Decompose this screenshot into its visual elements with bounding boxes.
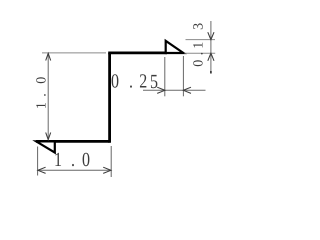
dimension line horizontal 1.0 bbox=[38, 169, 111, 171]
svg-text:.: . bbox=[192, 52, 207, 56]
arrow up-pointing below lower ext (0.13) bbox=[208, 53, 214, 61]
extension line left (for 0.25 dim) bbox=[164, 57, 166, 96]
extension line top (for vertical 1.0 dim) bbox=[42, 52, 106, 54]
dimension line vertical 0.13 bbox=[210, 21, 212, 73]
label 1.0 vertical (rotated) bbox=[34, 77, 49, 109]
wire vertical thick line of step profile bbox=[108, 53, 111, 143]
arrow down-pointing above upper ext (0.13) bbox=[208, 32, 214, 40]
arrow up (1.0 vertical top) bbox=[46, 53, 51, 60]
arrow right (1.0 horizontal) bbox=[103, 167, 111, 173]
svg-text:1: 1 bbox=[54, 149, 62, 171]
label 0.13 (rotated) bbox=[192, 23, 207, 67]
extension line right (for 0.25 dim) bbox=[182, 56, 184, 96]
extension line bottom-right (for horizontal 1.0 dim) bbox=[110, 146, 112, 177]
svg-text:.: . bbox=[71, 149, 75, 171]
extension line upper (for 0.13 dim) bbox=[186, 39, 216, 41]
svg-text:1: 1 bbox=[192, 42, 207, 49]
chamfer triangle bottom-left bbox=[36, 141, 55, 152]
extension line lower (for 0.13 dim) bbox=[185, 52, 216, 54]
arrow left (1.0 horizontal) bbox=[38, 167, 46, 173]
chamfer triangle top-right bbox=[166, 41, 184, 53]
label 1.0 horizontal bbox=[54, 149, 90, 171]
svg-text:5: 5 bbox=[150, 71, 158, 93]
svg-text:.: . bbox=[34, 93, 49, 97]
svg-text:0: 0 bbox=[82, 149, 90, 171]
tick at bottom end of 0.13 dimension line bbox=[210, 71, 212, 74]
svg-text:.: . bbox=[129, 71, 133, 93]
extension line bottom-left (for horizontal 1.0 dim) bbox=[37, 147, 39, 176]
svg-text:3: 3 bbox=[192, 23, 207, 30]
wire top horizontal thick line of step profile bbox=[108, 52, 167, 55]
svg-text:0: 0 bbox=[34, 77, 49, 84]
arrow right-pointing at left ext (0.25) bbox=[157, 87, 165, 93]
svg-text:2: 2 bbox=[139, 71, 147, 93]
svg-text:0: 0 bbox=[192, 60, 207, 67]
arrow down (1.0 vertical bottom) bbox=[46, 133, 51, 140]
wire bottom horizontal thick line of step profile bbox=[36, 140, 110, 143]
svg-text:1: 1 bbox=[34, 102, 49, 109]
label 0.25 bbox=[111, 71, 158, 94]
svg-text:0: 0 bbox=[111, 71, 119, 93]
arrow left-pointing at right ext (0.25) bbox=[183, 87, 191, 93]
dimension line horizontal 0.25 bbox=[143, 89, 206, 91]
dimension line vertical 1.0 bbox=[47, 53, 49, 139]
